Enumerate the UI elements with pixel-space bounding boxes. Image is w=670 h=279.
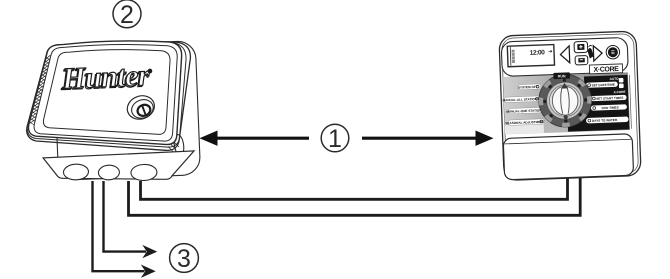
right pill 1 — [586, 82, 618, 88]
lid side contour line inner — [27, 42, 186, 147]
power icon bar — [142, 106, 145, 115]
round button outer — [124, 92, 158, 123]
knockout oval middle — [98, 165, 120, 180]
door crease — [505, 139, 631, 144]
left pill 1 — [518, 84, 541, 90]
hatch at bottom-right lid corner — [168, 142, 179, 152]
shell inner bevel — [502, 34, 639, 178]
callout circle 2 — [113, 0, 141, 29]
right triangle button — [593, 45, 602, 61]
minus button — [575, 56, 588, 65]
lid rim line — [34, 44, 177, 141]
arrowhead lower valve wire — [141, 265, 156, 278]
svg-text:SYSTEM OFF: SYSTEM OFF — [518, 85, 538, 90]
wire from box to controller (lower) — [129, 172, 581, 215]
junction box (Hunter wireless receiver) — [39, 41, 201, 185]
left pill 3 — [506, 107, 542, 114]
power icon ring — [136, 103, 152, 118]
lid side contour line outer — [27, 42, 191, 150]
wire from box to controller (upper) — [141, 172, 568, 199]
LCD outer — [507, 45, 554, 67]
box bottom band — [43, 151, 195, 184]
callout circle 1 — [321, 124, 349, 153]
hand icon — [587, 48, 594, 59]
lid inner face — [43, 50, 170, 135]
X-CORE controller — [499, 31, 641, 180]
svg-text:2: 2 — [120, 1, 134, 29]
wire to valves (lower) — [93, 181, 145, 271]
black right panel (L shape) — [566, 75, 629, 132]
LCD battery gauge — [512, 50, 515, 63]
pale strip bottom-left of band — [505, 124, 544, 134]
svg-text:AUTO: AUTO — [610, 77, 620, 81]
plus button — [574, 41, 588, 52]
controller shell — [499, 31, 641, 180]
knockout oval right — [131, 164, 158, 181]
svg-text:X-CORE: X-CORE — [613, 90, 625, 94]
right pill 2 — [590, 95, 626, 102]
left pill 2 — [502, 96, 540, 103]
side oval on backplate — [173, 134, 185, 156]
light grey block under dial — [543, 117, 568, 132]
right pill 4 — [586, 116, 629, 123]
knockout oval left — [63, 164, 89, 181]
shell inner line right of panel — [629, 75, 631, 129]
rotary dial — [538, 73, 592, 127]
lid outer silhouette — [28, 41, 181, 145]
svg-text:12:00: 12:00 — [530, 49, 546, 57]
X-CORE label — [589, 64, 622, 74]
small square button B — [619, 83, 624, 88]
callout circle 3 — [170, 244, 199, 273]
right arrow of double arrow — [362, 131, 494, 146]
arrowhead upper valve wire — [142, 245, 157, 258]
left triangle button — [560, 46, 570, 63]
right pill 3 — [591, 104, 627, 111]
svg-text:SET DATE/TIME: SET DATE/TIME — [592, 83, 615, 88]
small square button A — [619, 78, 624, 83]
svg-text:Hunter: Hunter — [60, 59, 150, 96]
left pill 4 — [505, 119, 544, 126]
round rain button — [606, 45, 620, 59]
svg-text:3: 3 — [177, 245, 191, 273]
backplate — [53, 41, 200, 181]
top white bubble — [501, 37, 628, 76]
LCD left inner line — [509, 47, 512, 66]
wire to valves (upper) — [104, 181, 147, 252]
door — [503, 134, 633, 180]
LCD small arrow — [548, 50, 551, 53]
svg-text:RUN: RUN — [558, 74, 566, 78]
left arrow of double arrow — [200, 131, 310, 146]
svg-text:X·CORE: X·CORE — [594, 66, 620, 74]
grey mid band — [503, 72, 630, 134]
svg-text:1: 1 — [328, 125, 342, 153]
round button mid — [129, 97, 156, 122]
dial position tab (RUN) — [553, 72, 570, 79]
svg-text:RUN TIMES: RUN TIMES — [602, 106, 619, 111]
left edge hatch marks — [30, 55, 51, 123]
left edge crosshatch marks — [29, 57, 50, 125]
logo registered mark — [147, 69, 152, 74]
